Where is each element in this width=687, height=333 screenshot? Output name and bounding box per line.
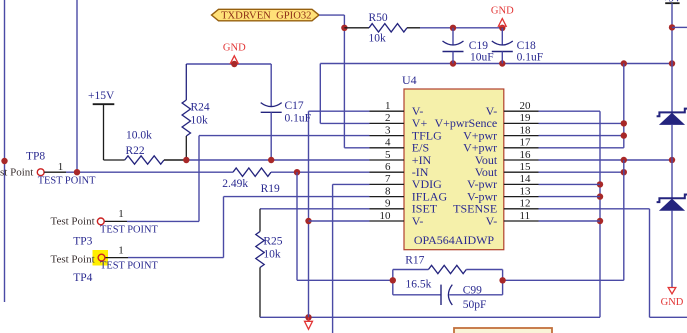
svg-text:GND: GND — [661, 297, 684, 308]
svg-text:10.0k: 10.0k — [126, 129, 152, 141]
svg-text:13: 13 — [520, 185, 532, 197]
svg-text:Test Point: Test Point — [51, 215, 95, 227]
svg-text:10uF: 10uF — [470, 52, 494, 64]
svg-text:V-: V- — [412, 214, 424, 228]
svg-text:12: 12 — [520, 198, 531, 210]
svg-text:C99: C99 — [463, 285, 482, 297]
svg-text:2: 2 — [385, 112, 391, 124]
svg-text:U4: U4 — [402, 73, 417, 87]
svg-text:5: 5 — [385, 149, 391, 161]
svg-text:GND: GND — [491, 6, 514, 17]
svg-text:V-: V- — [486, 214, 498, 228]
svg-text:16.5k: 16.5k — [406, 279, 432, 291]
svg-text:11: 11 — [520, 210, 531, 222]
svg-text:st Point: st Point — [0, 167, 33, 179]
svg-text:8: 8 — [385, 185, 391, 197]
svg-text:+15V: +15V — [88, 90, 115, 102]
svg-text:R25: R25 — [263, 236, 282, 248]
svg-text:50pF: 50pF — [463, 299, 487, 311]
svg-text:17: 17 — [520, 137, 532, 149]
svg-text:R19: R19 — [261, 183, 280, 195]
svg-text:20: 20 — [520, 100, 532, 112]
svg-text:1: 1 — [58, 161, 64, 173]
svg-text:C17: C17 — [285, 100, 304, 112]
svg-text:1: 1 — [385, 100, 391, 112]
svg-text:TP8: TP8 — [26, 150, 45, 162]
svg-text:OPA564AIDWP: OPA564AIDWP — [414, 233, 495, 247]
svg-text:GND: GND — [223, 43, 246, 54]
svg-text:3: 3 — [385, 124, 391, 136]
svg-text:15: 15 — [520, 161, 532, 173]
svg-text:TXDRVEN GPIO32: TXDRVEN GPIO32 — [221, 11, 311, 22]
svg-text:10k: 10k — [191, 115, 209, 127]
svg-text:TP4: TP4 — [73, 272, 92, 284]
svg-text:14: 14 — [520, 173, 532, 185]
svg-text:Test Point: Test Point — [51, 253, 95, 265]
svg-text:R24: R24 — [191, 102, 210, 114]
svg-text:19: 19 — [520, 112, 532, 124]
svg-text:R22: R22 — [126, 145, 145, 157]
svg-text:1: 1 — [118, 208, 124, 220]
svg-text:TEST POINT: TEST POINT — [100, 224, 158, 235]
svg-text:0.1uF: 0.1uF — [285, 113, 312, 125]
svg-text:TP3: TP3 — [73, 235, 92, 247]
svg-text:TEST POINT: TEST POINT — [100, 261, 158, 272]
svg-text:TEST POINT: TEST POINT — [38, 176, 96, 187]
svg-text:4: 4 — [385, 137, 391, 149]
svg-text:10k: 10k — [263, 248, 281, 260]
svg-text:C18: C18 — [517, 40, 536, 52]
svg-text:18: 18 — [520, 124, 532, 136]
svg-text:7: 7 — [385, 173, 391, 185]
svg-text:2.49k: 2.49k — [222, 178, 248, 190]
svg-text:10k: 10k — [369, 32, 387, 44]
svg-text:0.1uF: 0.1uF — [517, 52, 544, 64]
svg-text:1: 1 — [118, 245, 124, 257]
svg-text:R17: R17 — [405, 255, 424, 267]
svg-text:16: 16 — [520, 149, 532, 161]
svg-text:6: 6 — [385, 161, 391, 173]
svg-text:R50: R50 — [369, 12, 388, 24]
svg-text:C19: C19 — [469, 40, 488, 52]
svg-text:10: 10 — [380, 210, 392, 222]
svg-text:9: 9 — [385, 198, 391, 210]
